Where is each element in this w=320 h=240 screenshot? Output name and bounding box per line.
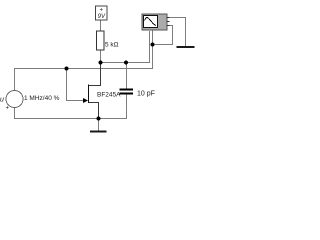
svg-text:9V: 9V: [98, 14, 106, 20]
svg-text:1 MHz/40 %: 1 MHz/40 %: [24, 95, 60, 102]
svg-text:u: u: [0, 97, 4, 104]
svg-text:5 kΩ: 5 kΩ: [105, 42, 119, 49]
svg-text:+: +: [100, 8, 104, 14]
svg-text:BF245A: BF245A: [97, 92, 121, 99]
svg-text:10 pF: 10 pF: [137, 91, 155, 98]
svg-text:+: +: [6, 106, 10, 112]
